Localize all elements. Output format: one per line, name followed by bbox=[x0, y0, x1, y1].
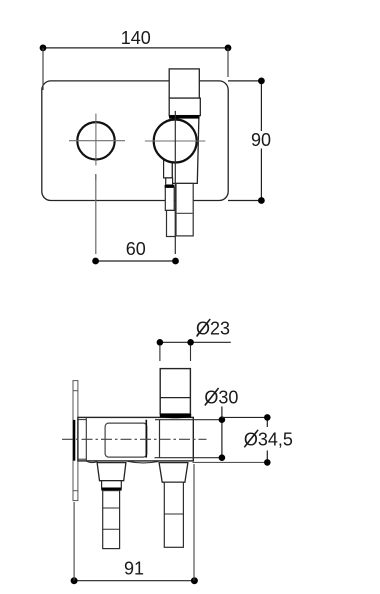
wall plate edge-on bbox=[73, 381, 78, 501]
left knob centerline to dim bbox=[95, 174, 97, 254]
left supply nut bbox=[97, 463, 126, 481]
right pipe bbox=[164, 482, 183, 547]
svg-text:90: 90 bbox=[251, 130, 271, 150]
dimension o34,5 bbox=[193, 414, 293, 466]
body section line dark bbox=[145, 420, 147, 458]
body internal vertical line left bbox=[85, 417, 87, 461]
thick black bar under step rect B bbox=[165, 185, 175, 188]
dimension 60 bbox=[92, 239, 179, 264]
body centerline dash-dot bbox=[62, 438, 207, 440]
top rectangle 2 (collar) bbox=[169, 98, 200, 116]
lever body below hub bbox=[172, 117, 199, 183]
stem flange black bbox=[160, 414, 191, 418]
left knob circle bbox=[77, 122, 114, 159]
thick black bar above hub bbox=[169, 115, 200, 118]
grip right column bbox=[176, 183, 193, 236]
top rectangle 1 (cap above plate) bbox=[169, 69, 199, 98]
step rect A left of lever bbox=[164, 150, 173, 178]
body section line right bbox=[159, 420, 161, 458]
thick black bar on wall plate bbox=[73, 420, 75, 461]
plate outline (front view 140x90) bbox=[42, 81, 228, 201]
left knob crosshair bbox=[69, 114, 125, 166]
stem (o23) bbox=[160, 369, 190, 414]
hub crosshair bbox=[145, 140, 205, 142]
left collar thick black base bbox=[101, 488, 121, 491]
handle centerline bbox=[174, 111, 176, 254]
valve body rect bbox=[78, 417, 193, 461]
svg-text:60: 60 bbox=[126, 239, 146, 259]
dimension 90 bbox=[228, 78, 271, 204]
dimension o30 bbox=[204, 388, 238, 462]
svg-text:140: 140 bbox=[121, 28, 151, 48]
right supply nut bbox=[159, 463, 188, 483]
body lower silhouette arcs bbox=[87, 461, 159, 463]
grip lower-left column bbox=[167, 210, 176, 236]
grip upper-left column bbox=[165, 187, 174, 210]
svg-text:Ø23: Ø23 bbox=[196, 319, 230, 339]
step rect B left of lever bbox=[166, 178, 173, 185]
left collar bbox=[102, 481, 122, 488]
body double edge segments near wall bbox=[78, 420, 86, 460]
dimension 91 bbox=[71, 464, 198, 584]
svg-text:Ø30: Ø30 bbox=[204, 388, 238, 408]
dimension 140 bbox=[40, 28, 232, 90]
svg-text:91: 91 bbox=[124, 559, 144, 579]
body o30 cylinder edges bbox=[155, 420, 222, 458]
dimension o23 bbox=[157, 319, 231, 362]
body rounded sub-rect bbox=[105, 423, 147, 457]
handle hub circle bbox=[154, 120, 197, 163]
left pipe bbox=[103, 491, 120, 549]
